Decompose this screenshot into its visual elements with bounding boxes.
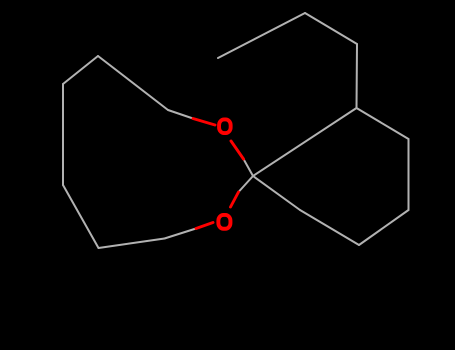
wire C9-C8 upper-left diagonal [98, 56, 168, 110]
bond C9-O1 red half [193, 119, 215, 126]
atom O1 upper oxygen [219, 119, 231, 133]
wire C4-O3 gray half [165, 229, 197, 239]
bond O3-C2 red half [231, 192, 239, 207]
wire O1-C2 gray half [244, 159, 254, 176]
bond O1-C2 red half [231, 141, 244, 159]
wire D-E right ring bottom edge [300, 210, 359, 245]
wire C5-C4 bottom edge [99, 239, 165, 249]
wire C2-A right ring long edge [253, 108, 357, 176]
wire C8-C7 top-left short [63, 56, 98, 84]
wire E-C2 right ring bottom-left edge [253, 176, 300, 210]
wire chain peak left-upper [305, 13, 357, 44]
wire A-B right ring top-right edge [357, 108, 409, 139]
wire C6-C5 lower-left diagonal [63, 185, 99, 248]
wire O3-C2 gray half [239, 176, 254, 192]
wire chain end down-left [218, 13, 305, 58]
wire A-chain vertical [356, 44, 359, 108]
wire B-F right ring right vertical [408, 139, 410, 210]
wire C7-C6 left vertical [62, 84, 64, 185]
wire F-D right ring bottom-right edge [359, 210, 409, 245]
wire C9-O1 gray half [168, 110, 193, 119]
atom O3 lower oxygen [218, 215, 230, 229]
bond C4-O3 red half [196, 223, 213, 229]
